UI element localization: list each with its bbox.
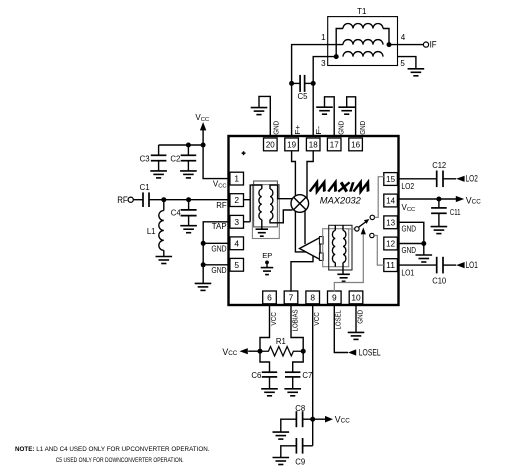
wire EP to ground: [266, 262, 268, 267]
capacitor C9: [295, 438, 297, 454]
ground C11: [431, 226, 448, 228]
svg-text:C5 USED ONLY FOR DOWNCONVERTER: C5 USED ONLY FOR DOWNCONVERTER OPERATION…: [56, 457, 184, 464]
capacitor C12: [436, 171, 438, 188]
svg-text:C7: C7: [302, 371, 312, 380]
ground EP: [261, 267, 274, 269]
pin 12 box: [384, 237, 398, 250]
ground C9: [273, 457, 290, 459]
svg-text:F-: F-: [314, 125, 323, 135]
wire pin15 LO2: [397, 178, 436, 180]
ground pins 13 12: [416, 254, 433, 256]
wire pin13 GND: [397, 222, 423, 243]
LO balun primary winding: [332, 231, 335, 263]
svg-text:NOTE: L1 AND C4 USED ONLY FOR: NOTE: L1 AND C4 USED ONLY FOR UPCONVERTE…: [15, 446, 210, 453]
wire mixer to amp input A: [295, 211, 306, 252]
svg-text:10: 10: [351, 292, 361, 302]
svg-text:R1: R1: [276, 337, 286, 346]
svg-text:5: 5: [400, 59, 405, 68]
svg-text:GND: GND: [402, 225, 417, 234]
wire C8 right: [303, 418, 313, 420]
terminal IF: [423, 42, 428, 47]
capacitor C5: [299, 75, 301, 92]
capacitor C1: [142, 192, 144, 207]
svg-text:VCC: VCC: [269, 312, 278, 326]
wire C9 right: [303, 445, 313, 447]
capacitor C4: [181, 209, 197, 211]
pin 5 box: [230, 258, 244, 271]
ground TAP chain: [195, 282, 212, 284]
wire pin8 VCC down: [312, 304, 314, 446]
RF balun outer box: [254, 181, 278, 227]
ground C7: [284, 388, 301, 390]
svg-text:17: 17: [330, 139, 339, 149]
inductor L1: [159, 211, 164, 251]
wire C11 bottom: [438, 213, 440, 226]
switch throw LO1 contact: [370, 233, 374, 237]
LO balun secondary winding: [343, 231, 346, 263]
LO balun outer box: [329, 225, 352, 270]
wire pin14 VCC: [397, 198, 456, 200]
terminal VCC arrowhead left: [240, 348, 248, 354]
svg-text:5: 5: [234, 260, 239, 270]
wire pin16 to ground: [347, 97, 356, 137]
node R1 left junction: [258, 349, 263, 354]
wire R1 left to C6: [260, 351, 270, 372]
pin 2 box: [230, 194, 244, 207]
svg-text:4: 4: [234, 238, 239, 248]
wire switch throw LO2 to pin15: [375, 177, 384, 218]
wire C10 to LO1 terminal: [443, 264, 456, 266]
node C4 junction: [186, 197, 191, 202]
svg-text:LO2: LO2: [466, 174, 478, 184]
svg-text:RF: RF: [216, 201, 227, 210]
svg-text:GND: GND: [358, 121, 367, 135]
svg-text:9: 9: [332, 292, 337, 302]
capacitor C3: [151, 154, 167, 156]
pin 18 box: [306, 138, 320, 151]
svg-text:C3: C3: [140, 155, 150, 164]
wire R1 to VCC terminal: [248, 350, 260, 352]
wire pin12 GND: [397, 243, 423, 245]
svg-text:6: 6: [267, 292, 272, 302]
capacitor C2: [181, 154, 197, 156]
RF balun inner box: [252, 185, 279, 239]
node VCC rail junction: [201, 143, 206, 148]
ground L1: [156, 256, 173, 258]
wire C12 to LO2 terminal: [443, 178, 456, 180]
node C5 left junction: [289, 81, 294, 86]
ground pin10: [348, 331, 365, 333]
svg-text:GND: GND: [272, 121, 281, 135]
svg-text:IF: IF: [430, 39, 438, 49]
T1 bottom winding: [343, 52, 383, 57]
svg-text:GND: GND: [211, 266, 227, 275]
RF balun primary winding: [259, 189, 262, 220]
LO balun primary top lead: [334, 225, 336, 230]
logo MAXIM: [310, 182, 371, 191]
ground C3: [150, 170, 167, 172]
node pin4 junction: [201, 241, 206, 246]
pin 7 box: [284, 291, 298, 304]
wire C4 bottom: [188, 216, 190, 226]
wire pin9 LOSEL: [334, 304, 348, 353]
EP pad dot: [265, 261, 269, 265]
LO balun primary bottom lead: [334, 263, 336, 267]
terminal VCC arrowhead bottom: [325, 416, 333, 423]
T1 middle winding: [343, 40, 383, 45]
wire LO balun secondary to ground: [342, 263, 344, 275]
svg-text:12: 12: [386, 239, 395, 249]
amp output tab B: [319, 253, 323, 260]
svg-text:15: 15: [386, 174, 395, 184]
T1 top winding left lead: [336, 29, 343, 57]
terminal VCC arrowhead right: [456, 196, 464, 202]
switch pole contact: [355, 227, 359, 231]
svg-text:VCC: VCC: [312, 312, 321, 326]
svg-text:C8: C8: [295, 404, 305, 413]
terminal LO1 arrowhead: [456, 262, 464, 268]
pin 1 box: [230, 172, 244, 185]
wire RF balun secondary top to mixer: [270, 185, 292, 199]
pin 10 box: [349, 291, 363, 304]
svg-text:LO1: LO1: [401, 268, 414, 277]
svg-text:C10: C10: [432, 277, 446, 286]
wire pin3 TAP internal: [244, 221, 251, 223]
wire RF balun secondary bottom to mixer: [270, 210, 293, 223]
power VCC arrow top-left: [200, 122, 206, 130]
svg-text:C6: C6: [251, 371, 261, 380]
mixer U1a circle: [291, 195, 309, 213]
svg-text:C11: C11: [450, 208, 461, 217]
wire C3 top: [158, 145, 160, 155]
svg-text:2: 2: [234, 195, 239, 205]
wire pin19 F+ to mixer: [292, 151, 296, 196]
pin 4 box: [230, 237, 244, 250]
svg-text:MAX2032: MAX2032: [320, 195, 362, 206]
wire RF to C1: [133, 199, 143, 201]
node C5 right junction: [311, 81, 316, 86]
switch throw LO2 contact: [370, 215, 374, 219]
wire VCC rail to pin1: [203, 145, 231, 179]
node T1 pin3 junction: [334, 54, 339, 59]
pin 13 box: [384, 216, 398, 229]
ground C8: [273, 431, 290, 433]
node GND12 junction: [421, 241, 426, 246]
pin 9 box: [328, 291, 342, 304]
wire LOSEL control: [334, 235, 363, 292]
IC pin1 indicator: [242, 151, 246, 155]
svg-text:F+: F+: [293, 125, 302, 135]
wire pin7 LOBIAS: [291, 304, 303, 351]
svg-text:C4: C4: [171, 209, 182, 218]
ground C4: [180, 225, 197, 227]
svg-text:GND: GND: [402, 246, 417, 255]
pin 8 box: [306, 291, 320, 304]
capacitor C11: [431, 207, 447, 209]
pin 16 box: [349, 138, 363, 151]
svg-text:19: 19: [287, 139, 296, 149]
node pin5 junction: [201, 262, 206, 267]
svg-text:LO1: LO1: [466, 260, 478, 270]
RF balun secondary winding: [270, 189, 273, 220]
wire C11 top: [438, 199, 440, 208]
wire pin6 VCC: [260, 304, 270, 351]
wire T1 pin3 to F-: [313, 57, 336, 137]
wire C5 right: [305, 82, 314, 84]
node T1 pin4 junction: [387, 42, 392, 47]
pin 20 box: [264, 138, 278, 151]
T1 top winding: [343, 24, 383, 29]
svg-text:C2: C2: [170, 155, 180, 164]
terminal LO2 arrowhead: [456, 176, 464, 182]
wire C2 top: [187, 145, 189, 155]
terminal LOSEL arrowhead: [348, 349, 356, 355]
wire pin3 TAP: [203, 222, 230, 284]
capacitor C6: [262, 371, 277, 373]
wire C9 left to ground: [281, 446, 297, 458]
svg-text:C9: C9: [295, 458, 305, 467]
amp output tab A: [319, 237, 323, 244]
svg-text:C5: C5: [298, 92, 309, 101]
svg-text:3: 3: [321, 59, 326, 68]
IC U1 MAX2032 body: [229, 136, 399, 305]
pin 3 box: [230, 215, 244, 228]
svg-text:1: 1: [321, 33, 326, 42]
pin 19 box: [285, 138, 299, 151]
wire pin4 GND: [203, 242, 230, 244]
ground LO balun: [337, 273, 350, 275]
svg-text:T1: T1: [357, 7, 367, 16]
wire pin2 to RF balun: [244, 185, 262, 222]
ground T1 pin5: [408, 68, 425, 70]
wire pin10 GND: [355, 304, 357, 333]
svg-text:GND: GND: [211, 244, 227, 253]
svg-text:LOBIAS: LOBIAS: [290, 309, 299, 331]
svg-text:11: 11: [386, 260, 395, 270]
svg-text:C1: C1: [140, 183, 150, 192]
wire pin7 LOBIAS internal: [291, 256, 313, 292]
node pin8 VCC junction: [310, 417, 315, 422]
wire switch throw LO1 to pin11: [374, 236, 384, 266]
capacitor C10: [436, 257, 438, 274]
svg-text:7: 7: [289, 292, 294, 302]
ground C2: [180, 170, 197, 172]
capacitor C7: [285, 371, 300, 373]
wire C1 to pin2: [149, 199, 231, 201]
wire C7 bottom: [292, 377, 294, 389]
node C2 junction: [186, 143, 191, 148]
wire C3 bottom: [158, 161, 160, 171]
mixer cross: [294, 197, 306, 209]
svg-text:18: 18: [309, 139, 318, 149]
wire L1 top: [163, 200, 165, 211]
ground C6: [261, 388, 278, 390]
wire R1 right to C7: [293, 351, 304, 372]
wire pin17 to ground: [325, 97, 335, 137]
wire junction to VCC arrow: [313, 418, 326, 420]
wire C5 left: [292, 82, 301, 84]
svg-text:8: 8: [310, 292, 315, 302]
svg-text:RF: RF: [117, 195, 128, 205]
resistor R1: [260, 347, 303, 356]
LO balun inner box: [323, 229, 349, 267]
op-amp LO buffer: [300, 238, 321, 260]
T1 top winding right lead: [383, 29, 389, 45]
LO balun secondary top lead: [342, 225, 344, 230]
transformer T1 box: [328, 17, 398, 66]
switch arm: [358, 222, 365, 227]
wire L1 bottom: [163, 250, 165, 256]
svg-text:L1: L1: [147, 227, 156, 236]
wire pin11 LO1: [397, 264, 436, 266]
pin 14 box: [384, 194, 398, 207]
wire C2 bottom: [187, 161, 189, 171]
node L1 junction: [161, 197, 166, 202]
ground pin17: [316, 106, 333, 108]
switch arm arrowhead: [364, 219, 369, 224]
wire GND junction to ground: [423, 244, 425, 256]
pin 6 box: [263, 291, 277, 304]
svg-text:13: 13: [386, 217, 395, 227]
svg-text:LOSEL: LOSEL: [359, 348, 381, 358]
wire mixer to amp input B: [304, 211, 306, 245]
svg-text:3: 3: [234, 217, 239, 227]
pin 17 box: [327, 138, 341, 151]
wire T1 pin1 to F+: [292, 45, 343, 137]
node C11 junction: [436, 197, 441, 202]
LOSEL control arrowhead: [361, 227, 366, 234]
wire pin20 to ground: [259, 96, 270, 136]
wire T1 pin5 to ground: [398, 57, 416, 69]
svg-text:1: 1: [234, 174, 239, 184]
svg-text:TAP: TAP: [212, 222, 227, 231]
ground RF balun: [256, 228, 268, 230]
svg-text:LOSEL: LOSEL: [334, 310, 343, 330]
terminal RF: [128, 197, 133, 202]
svg-text:LO2: LO2: [401, 182, 414, 191]
svg-text:GND: GND: [355, 310, 364, 324]
svg-text:C12: C12: [432, 161, 446, 170]
svg-text:EP: EP: [262, 251, 272, 260]
svg-text:GND: GND: [336, 121, 345, 135]
wire C8 left to ground: [281, 419, 297, 432]
wire LO balun to switch pole: [346, 228, 355, 230]
pin 15 box: [384, 173, 398, 186]
capacitor C8: [295, 411, 297, 427]
wire RF balun primary to ground: [261, 220, 263, 230]
pin 11 box: [384, 259, 398, 272]
svg-text:4: 4: [401, 33, 406, 42]
wire C6 bottom: [269, 377, 271, 389]
ground pin16: [338, 106, 355, 108]
ground pin20: [251, 107, 268, 109]
wire C4 top: [188, 200, 190, 210]
svg-text:20: 20: [266, 139, 275, 149]
wire pin5 GND: [203, 264, 230, 266]
wire VCC arrow shaft: [202, 130, 204, 146]
wire VCC rail: [159, 144, 204, 146]
wire pin18 F- to mixer: [307, 151, 313, 199]
svg-text:16: 16: [351, 139, 360, 149]
svg-text:14: 14: [386, 196, 395, 206]
node R1 right junction: [301, 349, 306, 354]
wire T1 pin4 to IF: [389, 44, 423, 46]
